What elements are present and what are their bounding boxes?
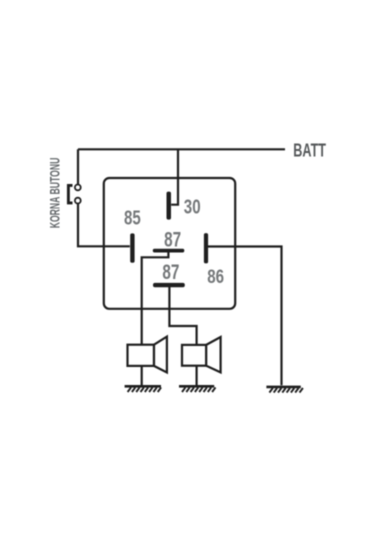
svg-text:87: 87: [162, 261, 179, 284]
svg-text:86: 86: [207, 266, 224, 288]
svg-text:87: 87: [164, 228, 181, 251]
svg-text:85: 85: [124, 208, 141, 230]
svg-text:BATT: BATT: [293, 140, 326, 160]
svg-text:30: 30: [184, 195, 201, 218]
svg-text:KORNA BUTONU: KORNA BUTONU: [46, 158, 62, 229]
